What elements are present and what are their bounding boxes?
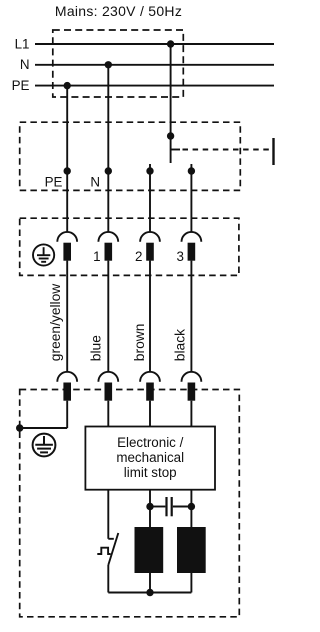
svg-text:green/yellow: green/yellow (48, 284, 63, 361)
svg-text:blue: blue (89, 335, 104, 361)
svg-text:Mains: 230V / 50Hz: Mains: 230V / 50Hz (55, 3, 182, 19)
svg-text:brown: brown (132, 324, 147, 362)
svg-text:N: N (20, 57, 30, 72)
svg-text:L1: L1 (15, 36, 30, 51)
svg-text:PE: PE (45, 175, 63, 190)
svg-text:Electronic /: Electronic / (117, 435, 184, 450)
svg-text:mechanical: mechanical (116, 450, 184, 465)
svg-text:PE: PE (12, 78, 30, 93)
svg-text:limit stop: limit stop (124, 465, 177, 480)
svg-text:3: 3 (177, 249, 184, 264)
svg-text:1: 1 (93, 249, 100, 264)
svg-text:2: 2 (135, 249, 142, 264)
svg-text:N: N (90, 175, 100, 190)
svg-text:black: black (173, 329, 188, 361)
